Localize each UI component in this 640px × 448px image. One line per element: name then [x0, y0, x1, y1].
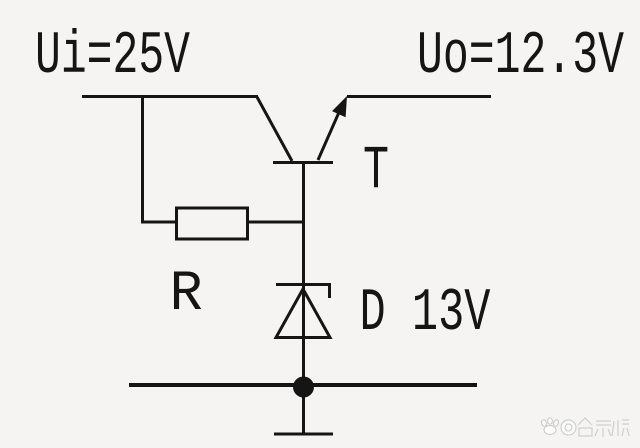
resistor R (body): [177, 208, 248, 239]
transistor T base bar: [273, 161, 333, 164]
junction node (solder dot): [293, 377, 314, 398]
wire junction down to terminal: [302, 386, 305, 433]
svg-text:D 13V: D 13V: [360, 280, 491, 348]
zener diode D triangle (anode): [276, 289, 330, 338]
transistor T collector diagonal: [257, 97, 292, 161]
wire base vertical down to zener: [302, 161, 305, 285]
ground terminal bar: [274, 433, 333, 436]
transistor T emitter arrowhead: [332, 96, 347, 117]
wire resistor right terminal to base node: [247, 221, 304, 224]
wire left vertical drop: [141, 95, 144, 224]
wire top output rail: [347, 95, 491, 98]
wire zener anode down to ground junction: [302, 285, 305, 386]
svg-text:Uo=12.3V: Uo=12.3V: [417, 23, 624, 91]
ground rail: [129, 383, 477, 387]
svg-text:Ui=25V: Ui=25V: [35, 23, 190, 91]
svg-text:R: R: [170, 263, 203, 327]
transistor T emitter diagonal: [318, 110, 340, 160]
wire to resistor left terminal: [141, 221, 177, 224]
watermark (paw icon + @ + CJK glyph shapes, light gray): [541, 418, 629, 437]
wire top input rail: [82, 95, 258, 98]
svg-text:T: T: [363, 137, 389, 206]
zener diode D cathode bar: [276, 285, 330, 299]
